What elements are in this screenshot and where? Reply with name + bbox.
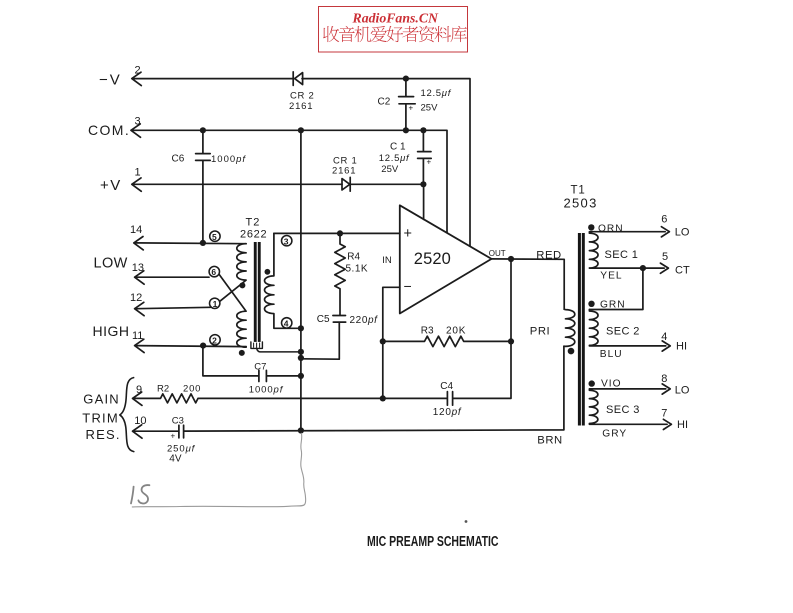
wire line 13 <box>136 276 209 278</box>
node junction feedback / R3 left <box>380 338 386 344</box>
wire output vertical to R3/C4 <box>453 259 511 398</box>
T2 secondary phasing dot <box>265 269 271 275</box>
node junction COM / C6 <box>200 127 206 133</box>
svg-text:RED: RED <box>536 249 561 261</box>
transformer T1 core <box>578 233 585 426</box>
svg-text:3: 3 <box>135 116 141 128</box>
terminal 14 arrow <box>134 237 144 250</box>
node junction COM / C1 <box>420 127 426 133</box>
handwritten page number 15 <box>131 485 149 503</box>
svg-text:20K: 20K <box>446 325 466 336</box>
svg-text:10: 10 <box>134 415 146 427</box>
svg-text:9: 9 <box>136 384 142 396</box>
T1 SEC3 phasing dot <box>589 380 595 386</box>
wire +V rail <box>134 183 424 185</box>
svg-text:R4: R4 <box>347 252 360 263</box>
wire line 12 <box>136 307 210 308</box>
svg-text:120pf: 120pf <box>433 407 462 418</box>
terminal 5 arrow (CT) <box>660 263 668 273</box>
svg-text:220pf: 220pf <box>350 315 379 326</box>
watermark red border box <box>319 7 468 53</box>
circled terminal 6 <box>209 266 219 276</box>
op-amp U1 2520 triangle <box>400 205 492 313</box>
svg-text:11: 11 <box>132 330 143 342</box>
transformer T2 primary winding top half <box>220 244 246 302</box>
capacitor C4 <box>447 392 452 406</box>
terminal 9 arrow <box>133 392 143 405</box>
svg-text:HI: HI <box>677 419 688 431</box>
diode CR1 <box>342 177 350 191</box>
resistor R4 <box>335 233 345 315</box>
transformer T2 primary winding bottom half <box>219 275 246 347</box>
node junction line11 / C7 branch <box>200 343 206 349</box>
svg-text:LO: LO <box>675 385 690 397</box>
node junction C7 / middle vertical <box>298 373 304 379</box>
wire CT to SEC2 top (GRN) <box>589 268 643 309</box>
transformer T2 secondary winding <box>265 233 301 328</box>
svg-text:VIO: VIO <box>601 379 622 390</box>
capacitor C2 <box>399 79 416 131</box>
svg-text:+V: +V <box>100 177 122 194</box>
terminal 8 arrow (LO) <box>662 384 670 394</box>
wire +V pin to op-amp <box>423 184 425 219</box>
circled terminal 2 <box>210 335 220 345</box>
svg-text:C2: C2 <box>378 97 391 108</box>
svg-text:C5: C5 <box>317 314 330 325</box>
svg-text:25V: 25V <box>381 164 399 175</box>
wire COM rail <box>133 130 447 232</box>
svg-text:14: 14 <box>130 224 142 236</box>
wire op-amp output <box>492 259 565 309</box>
svg-text:5.1K: 5.1K <box>346 263 369 274</box>
svg-text:C7: C7 <box>254 361 266 372</box>
svg-text:5: 5 <box>212 232 217 242</box>
wire T2 shield to middle vertical <box>257 348 301 352</box>
svg-text:T2: T2 <box>246 216 261 228</box>
svg-text:OUT: OUT <box>489 249 506 258</box>
terminal 10 arrow <box>133 425 143 438</box>
svg-text:+: + <box>427 158 432 167</box>
wire line 14 to T2 primary top <box>136 242 247 245</box>
svg-text:COM.: COM. <box>88 122 130 138</box>
terminal 7 arrow (HI) <box>663 419 671 429</box>
svg-text:5: 5 <box>662 251 668 263</box>
T2 core shield bracket <box>251 342 263 349</box>
capacitor C1 <box>418 130 432 184</box>
circled terminal 3 <box>282 236 292 246</box>
terminal 13 arrow <box>135 271 145 284</box>
svg-text:2161: 2161 <box>289 101 313 112</box>
node junction line14 / C6 branch <box>200 240 206 246</box>
svg-text:R2: R2 <box>157 383 169 394</box>
svg-text:MIC PREAMP SCHEMATIC: MIC PREAMP SCHEMATIC <box>367 534 499 550</box>
svg-text:7: 7 <box>661 408 667 420</box>
svg-text:2: 2 <box>135 65 141 77</box>
T1 primary phasing dot <box>568 348 575 355</box>
svg-text:C4: C4 <box>440 381 453 392</box>
svg-text:SEC 1: SEC 1 <box>605 249 639 261</box>
svg-text:13: 13 <box>132 262 144 274</box>
svg-text:BLU: BLU <box>600 349 623 360</box>
svg-text:4: 4 <box>661 331 667 343</box>
svg-text:1: 1 <box>135 167 141 179</box>
svg-text:PRI: PRI <box>530 326 550 338</box>
svg-text:12.5μf: 12.5μf <box>379 153 410 164</box>
svg-text:12.5μf: 12.5μf <box>421 88 452 99</box>
node junction C5 return / middle vertical <box>298 355 304 361</box>
wire line 10 left <box>134 430 179 432</box>
node junction shield / middle vertical <box>298 349 304 355</box>
T1 SEC2 phasing dot <box>588 301 594 307</box>
capacitor C6 <box>196 130 211 243</box>
svg-text:C 1: C 1 <box>390 142 406 153</box>
svg-text:ORN: ORN <box>598 224 624 235</box>
svg-text:R3: R3 <box>421 325 434 336</box>
svg-text:LOW: LOW <box>94 256 128 272</box>
wire middle vertical (COM to BRN) <box>300 130 302 430</box>
svg-text:1000pf: 1000pf <box>249 384 284 395</box>
svg-text:SEC 3: SEC 3 <box>606 404 640 416</box>
svg-text:HI: HI <box>676 341 687 353</box>
circled terminal 1 <box>210 298 220 308</box>
T2 primary phasing dot lower <box>239 350 245 356</box>
svg-text:HIGH: HIGH <box>93 323 130 339</box>
svg-text:+: + <box>171 432 176 441</box>
transformer T1 SEC3 winding <box>589 389 667 424</box>
watermark chinese text 收音机爱好者资料库 (vector glyphs) <box>323 26 467 42</box>
node junction output <box>508 256 514 262</box>
svg-text:−: − <box>404 278 412 294</box>
svg-text:TRIM: TRIM <box>82 411 119 426</box>
node junction COM / C2 <box>403 127 409 133</box>
node junction YEL / CT <box>640 265 646 271</box>
svg-text:2622: 2622 <box>240 229 267 241</box>
svg-text:+: + <box>409 104 414 113</box>
terminal 6 arrow (LO) <box>661 227 669 237</box>
svg-text:8: 8 <box>661 373 667 385</box>
transformer T1 primary winding <box>564 309 575 346</box>
circled terminal 5 <box>210 231 220 241</box>
svg-text:2503: 2503 <box>564 195 598 210</box>
svg-text:1: 1 <box>213 299 218 309</box>
resistor R3 <box>383 336 511 346</box>
transformer T1 SEC2 winding <box>589 310 665 346</box>
svg-text:IN: IN <box>382 255 392 266</box>
svg-text:3: 3 <box>284 236 289 246</box>
circled terminal 4 <box>282 318 292 328</box>
wire -V rail <box>134 79 471 247</box>
wire - input feedback <box>383 287 400 398</box>
svg-text:RES.: RES. <box>86 427 121 442</box>
ink speck <box>465 520 468 523</box>
node junction output vertical / R3 right <box>508 338 514 344</box>
terminal 4 arrow (HI) <box>662 341 670 351</box>
capacitor C5 <box>301 316 346 360</box>
svg-text:LO: LO <box>675 227 690 239</box>
transformer T1 SEC1 winding <box>589 232 665 268</box>
svg-text:GRY: GRY <box>602 429 627 440</box>
svg-text:+: + <box>404 226 412 242</box>
node junction line10 / middle vertical <box>298 427 304 433</box>
node junction +input / R4 <box>337 230 343 236</box>
diode CR2 <box>293 72 302 86</box>
brace for GAIN TRIM RES <box>120 378 134 452</box>
svg-text:GAIN: GAIN <box>83 391 120 406</box>
svg-text:4: 4 <box>284 319 289 329</box>
svg-text:RadioFans.CN: RadioFans.CN <box>352 11 440 26</box>
node junction feedback / line 9 <box>380 395 386 401</box>
svg-text:GRN: GRN <box>600 300 626 311</box>
svg-text:YEL: YEL <box>600 271 622 282</box>
resistor R2 and wire line 9 <box>134 394 447 403</box>
svg-text:C3: C3 <box>172 415 184 426</box>
svg-text:−V: −V <box>99 72 122 89</box>
terminal 3 (COM) arrow <box>131 124 141 137</box>
svg-text:2: 2 <box>212 335 217 345</box>
svg-text:12: 12 <box>130 292 142 304</box>
transformer T2 core <box>254 242 261 342</box>
svg-text:1000pf: 1000pf <box>211 154 246 165</box>
terminal 12 arrow <box>135 302 145 315</box>
svg-text:4V: 4V <box>169 454 182 465</box>
wire line 10 / BRN to T1 primary <box>184 346 564 431</box>
svg-text:SEC 2: SEC 2 <box>606 326 640 338</box>
capacitor C7 <box>203 346 301 382</box>
svg-text:C6: C6 <box>172 154 185 165</box>
svg-text:BRN: BRN <box>537 434 562 446</box>
svg-text:200: 200 <box>183 383 201 394</box>
capacitor C3 <box>179 425 184 438</box>
node junction -V / C2 <box>403 76 409 82</box>
T1 SEC1 phasing dot <box>588 224 594 230</box>
svg-text:2520: 2520 <box>414 250 451 268</box>
terminal 1 (+V) arrow <box>132 178 142 191</box>
wire + input line <box>274 232 400 234</box>
terminal 2 (-V) arrow <box>132 72 142 85</box>
svg-text:CT: CT <box>675 265 690 277</box>
node junction secondary return / middle vertical <box>298 325 304 331</box>
node junction +V / C1 / op-amp pin <box>420 181 426 187</box>
T2 primary phasing dot upper <box>239 282 245 288</box>
wire line 11 to T2 primary bottom <box>136 346 246 347</box>
svg-text:25V: 25V <box>421 103 439 114</box>
svg-text:6: 6 <box>661 213 667 225</box>
svg-text:2161: 2161 <box>332 166 356 177</box>
node junction COM / middle vertical <box>298 127 304 133</box>
handwritten squiggle wire trace <box>132 433 305 507</box>
terminal 11 arrow <box>135 339 145 352</box>
svg-text:6: 6 <box>211 267 216 277</box>
